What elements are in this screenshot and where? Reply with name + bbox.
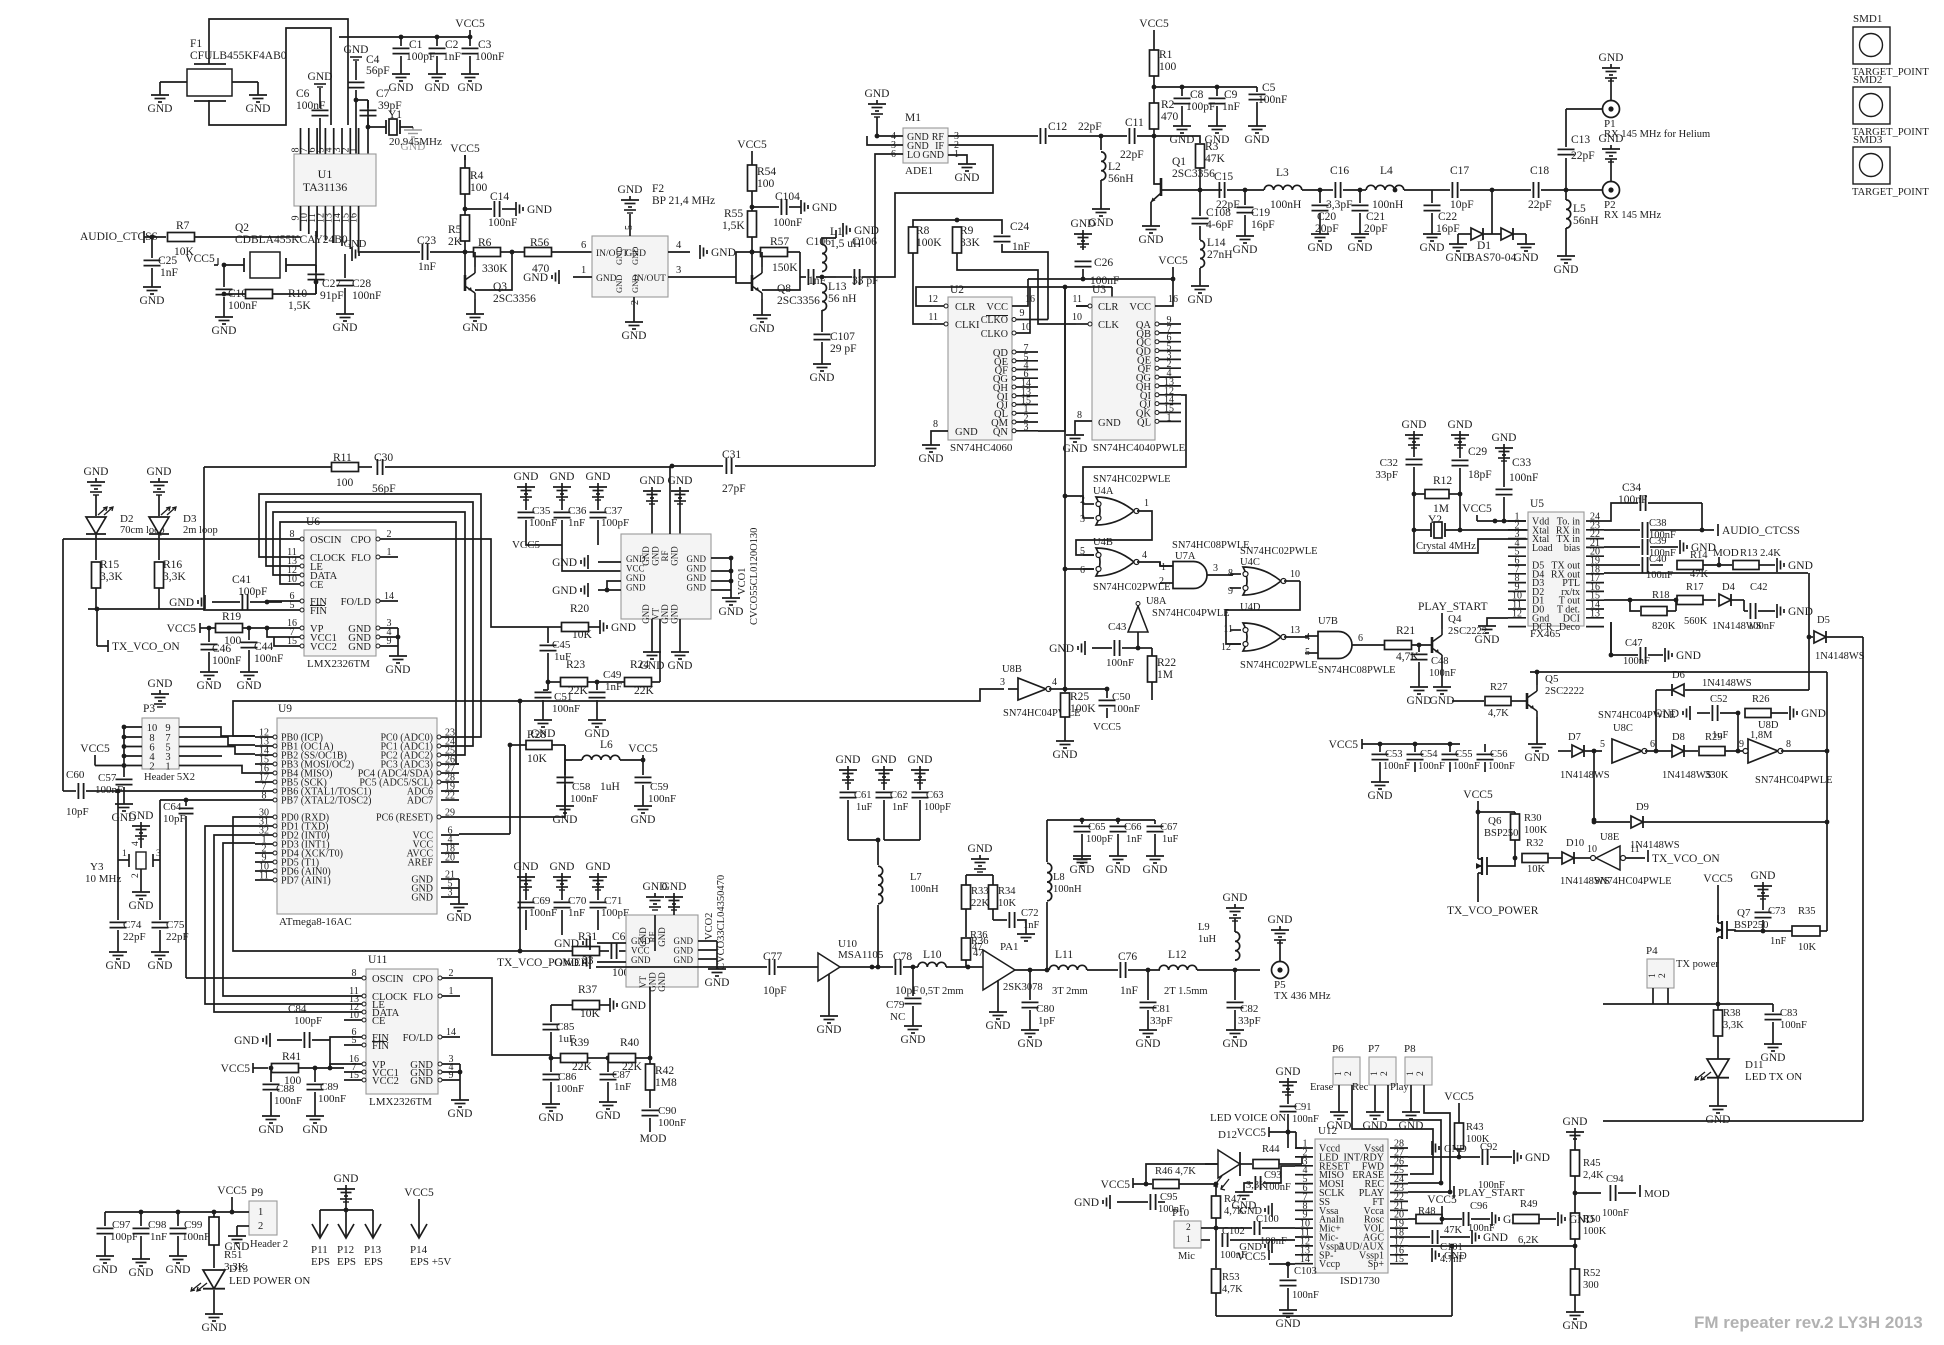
ground C53 <box>1379 778 1381 782</box>
capacitor C36 1nF <box>561 483 563 487</box>
ground C89 <box>314 1112 316 1116</box>
svg-text:C37: C37 <box>604 505 623 517</box>
svg-text:4,7K: 4,7K <box>1222 1284 1243 1295</box>
wires U11 bundle up to PD rows <box>223 843 344 996</box>
svg-text:2SC3356: 2SC3356 <box>1172 168 1215 180</box>
svg-text:4-6pF: 4-6pF <box>1206 219 1233 231</box>
svg-text:C5: C5 <box>1262 82 1276 94</box>
svg-text:3,3K: 3,3K <box>100 571 123 583</box>
svg-text:VCC5: VCC5 <box>167 623 197 635</box>
svg-text:2: 2 <box>258 1221 263 1232</box>
ground above C26 <box>1082 230 1084 234</box>
wire Y3 to XTAL pins <box>117 791 119 860</box>
svg-text:GND: GND <box>631 814 656 826</box>
svg-text:R14: R14 <box>1690 550 1708 561</box>
svg-text:2: 2 <box>1186 1223 1191 1233</box>
svg-text:GND: GND <box>670 546 680 566</box>
gnd tap C92 <box>1513 1150 1515 1164</box>
ground L9 top <box>1234 904 1236 908</box>
svg-text:U8A: U8A <box>1146 596 1167 607</box>
svg-text:ATmega8-16AC: ATmega8-16AC <box>279 916 352 928</box>
ground P2 <box>1610 159 1612 181</box>
svg-text:5: 5 <box>352 1035 357 1046</box>
ground U1 pin15 <box>351 247 353 261</box>
svg-text:2: 2 <box>149 762 154 773</box>
svg-text:Y3: Y3 <box>90 861 104 873</box>
svg-text:3: 3 <box>676 265 681 276</box>
svg-text:GND: GND <box>1049 643 1074 655</box>
svg-text:D6: D6 <box>1672 670 1685 681</box>
svg-text:1: 1 <box>1161 562 1166 573</box>
gnd tap C47 <box>1664 648 1666 662</box>
svg-text:100nF: 100nF <box>773 217 802 229</box>
gnd tap Vssp1 <box>1431 1248 1433 1262</box>
svg-text:1: 1 <box>581 265 586 276</box>
capacitor C1 100pF <box>400 37 402 46</box>
svg-text:GND: GND <box>657 927 667 947</box>
svg-text:VCC5: VCC5 <box>217 1185 247 1197</box>
svg-text:GND: GND <box>527 204 552 216</box>
svg-text:ADE1: ADE1 <box>905 165 933 177</box>
svg-text:100nF: 100nF <box>1509 472 1538 484</box>
svg-text:R45: R45 <box>1583 1158 1601 1169</box>
svg-text:Deco: Deco <box>1559 622 1580 633</box>
svg-text:Crystal 4MHz: Crystal 4MHz <box>1416 541 1476 552</box>
svg-text:GND: GND <box>621 1000 646 1012</box>
svg-text:GND: GND <box>1554 264 1579 276</box>
svg-text:GND: GND <box>662 881 687 893</box>
svg-text:1nF: 1nF <box>568 907 585 919</box>
svg-text:100nF: 100nF <box>1429 668 1456 679</box>
svg-text:PA1: PA1 <box>1000 941 1019 953</box>
svg-text:GND: GND <box>630 247 640 265</box>
svg-text:GND: GND <box>148 103 173 115</box>
ground L5 <box>1565 252 1567 256</box>
ground C29 <box>1459 431 1461 435</box>
svg-text:R22: R22 <box>1157 657 1176 669</box>
svg-text:100pF: 100pF <box>294 1015 322 1027</box>
svg-text:22K: 22K <box>971 898 990 909</box>
svg-text:U3: U3 <box>1092 284 1106 296</box>
svg-text:GND: GND <box>166 1264 191 1276</box>
ground C75 <box>159 948 161 952</box>
svg-text:8: 8 <box>352 968 357 979</box>
svg-text:L2: L2 <box>1108 161 1121 173</box>
svg-text:LMX2326TM: LMX2326TM <box>307 658 370 670</box>
svg-text:GND: GND <box>586 861 611 873</box>
svg-text:VCC5: VCC5 <box>1158 255 1188 267</box>
svg-text:AREF: AREF <box>407 858 433 869</box>
svg-text:P7: P7 <box>1368 1043 1380 1055</box>
svg-text:SN74HC02PWLE: SN74HC02PWLE <box>1093 474 1171 485</box>
ground C51 <box>542 716 544 720</box>
svg-text:GND: GND <box>1139 234 1164 246</box>
svg-text:R47: R47 <box>1224 1194 1242 1205</box>
svg-text:U4D: U4D <box>1240 602 1261 613</box>
svg-text:C39: C39 <box>1649 536 1667 547</box>
ground C88 <box>270 1112 272 1116</box>
ground Y3 bottom <box>140 888 142 892</box>
svg-text:14: 14 <box>384 591 394 602</box>
gnd tap Vssp2 <box>1271 1239 1273 1253</box>
svg-text:10pF: 10pF <box>66 806 89 818</box>
gnd tap C101 <box>1471 1230 1473 1244</box>
svg-text:VCC5: VCC5 <box>1093 721 1122 733</box>
svg-text:R41: R41 <box>282 1051 301 1063</box>
svg-text:2: 2 <box>630 300 641 305</box>
svg-text:R34: R34 <box>998 886 1016 897</box>
capacitor C63 100pF <box>919 766 921 770</box>
svg-text:Rec: Rec <box>1352 1082 1369 1093</box>
gnd trio above C69 <box>525 873 527 877</box>
svg-text:100nF: 100nF <box>1383 761 1410 772</box>
ground U2 pin8 <box>931 431 948 441</box>
svg-text:10: 10 <box>1587 844 1597 855</box>
svg-text:100nF: 100nF <box>552 703 580 715</box>
ground C79 <box>912 1022 914 1026</box>
svg-text:GND: GND <box>622 330 647 342</box>
svg-text:GND: GND <box>922 150 944 161</box>
svg-text:14: 14 <box>446 1027 456 1038</box>
wire XTAL1 line <box>118 790 255 792</box>
svg-text:R19: R19 <box>222 611 241 623</box>
svg-text:GND: GND <box>1788 560 1813 572</box>
svg-text:R39: R39 <box>570 1037 589 1049</box>
svg-text:100nF: 100nF <box>1748 621 1775 632</box>
svg-text:R13 2.4K: R13 2.4K <box>1740 548 1781 559</box>
svg-text:33pF: 33pF <box>1150 1015 1173 1027</box>
svg-text:VCC5: VCC5 <box>1703 873 1733 885</box>
svg-text:L5: L5 <box>1573 203 1586 215</box>
svg-text:GND: GND <box>1444 1251 1467 1262</box>
svg-text:GND: GND <box>448 1108 473 1120</box>
svg-text:CLKI: CLKI <box>955 320 980 331</box>
svg-text:47K: 47K <box>1690 569 1709 580</box>
svg-text:R17: R17 <box>1686 582 1704 593</box>
svg-text:3: 3 <box>1024 422 1029 433</box>
svg-text:CLR: CLR <box>1098 302 1118 313</box>
svg-text:GND: GND <box>955 427 978 438</box>
svg-text:C28: C28 <box>352 278 371 290</box>
svg-text:Q4: Q4 <box>1448 613 1462 625</box>
svg-text:VCC5: VCC5 <box>185 253 215 265</box>
svg-text:6: 6 <box>581 240 586 251</box>
svg-text:33pF: 33pF <box>1238 1015 1261 1027</box>
svg-text:P14: P14 <box>410 1244 428 1256</box>
wire U4B input6 junction <box>1065 568 1094 570</box>
svg-text:R36: R36 <box>971 936 989 947</box>
svg-text:6: 6 <box>1358 633 1363 644</box>
svg-text:VCO1: VCO1 <box>737 568 748 595</box>
capacitor C3 100nF <box>469 37 471 46</box>
svg-text:GND: GND <box>552 585 577 597</box>
svg-text:U8E: U8E <box>1600 832 1619 843</box>
ground F1 right <box>257 91 259 95</box>
svg-text:GND: GND <box>147 466 172 478</box>
svg-text:GND: GND <box>410 1076 433 1087</box>
svg-text:D4: D4 <box>1722 582 1736 593</box>
svg-text:20: 20 <box>445 853 455 864</box>
svg-text:L6: L6 <box>600 739 613 751</box>
ground U5 pin12 <box>1487 618 1508 622</box>
svg-text:R29: R29 <box>1705 732 1723 743</box>
svg-text:P12: P12 <box>337 1244 354 1256</box>
svg-text:LO: LO <box>907 150 920 161</box>
svg-text:Q8: Q8 <box>777 283 791 295</box>
svg-text:GND: GND <box>1761 1052 1786 1064</box>
svg-text:LED POWER ON: LED POWER ON <box>229 1275 310 1287</box>
svg-text:D9: D9 <box>1636 802 1649 813</box>
svg-text:CE: CE <box>372 1016 385 1027</box>
connector P1 RX 145 MHz for Helium <box>1603 101 1620 118</box>
svg-text:D8: D8 <box>1672 732 1685 743</box>
svg-text:1: 1 <box>258 1207 263 1218</box>
svg-text:R55: R55 <box>724 208 743 220</box>
svg-text:L13: L13 <box>828 281 847 293</box>
ground C104 <box>800 200 802 214</box>
svg-text:GND: GND <box>668 475 693 487</box>
svg-text:C65: C65 <box>1088 822 1106 833</box>
svg-text:3,3K: 3,3K <box>163 571 186 583</box>
ground C103 <box>1287 1306 1289 1310</box>
svg-text:18pF: 18pF <box>1468 469 1492 481</box>
svg-text:100nF: 100nF <box>648 793 676 805</box>
svg-text:4,7K: 4,7K <box>1488 708 1509 719</box>
svg-text:VCC5: VCC5 <box>1462 503 1492 515</box>
right border wires <box>1603 1120 1863 1122</box>
svg-text:U1: U1 <box>318 167 333 181</box>
svg-text:5: 5 <box>1600 739 1605 750</box>
VCO2 VT down <box>649 987 651 1058</box>
svg-text:100nF: 100nF <box>1292 1290 1319 1301</box>
svg-text:300: 300 <box>1583 1280 1599 1291</box>
svg-text:C83: C83 <box>1780 1008 1798 1019</box>
svg-text:CLR: CLR <box>955 302 975 313</box>
svg-text:1M8: 1M8 <box>655 1077 677 1089</box>
GND cap C41 wire <box>204 595 206 609</box>
svg-text:VCC5: VCC5 <box>80 743 110 755</box>
svg-text:GND: GND <box>148 678 173 690</box>
svg-text:GND: GND <box>810 372 835 384</box>
ground U3 pin8 <box>1075 421 1092 431</box>
svg-text:R20: R20 <box>570 603 589 615</box>
svg-text:GND: GND <box>865 88 890 100</box>
svg-text:C17: C17 <box>1450 165 1469 177</box>
svg-text:2T 1.5mm: 2T 1.5mm <box>1164 986 1208 997</box>
svg-text:100K: 100K <box>1583 1226 1607 1237</box>
svg-text:GND: GND <box>674 936 694 946</box>
ground P11-P13 <box>345 1185 347 1189</box>
svg-text:1uH: 1uH <box>600 781 620 793</box>
wire U5 pin3 to crystal <box>1414 530 1529 553</box>
svg-text:2: 2 <box>131 873 141 878</box>
svg-text:P10: P10 <box>1172 1207 1190 1219</box>
svg-text:GND: GND <box>1525 1152 1550 1164</box>
svg-text:GND: GND <box>1276 1066 1301 1078</box>
svg-text:22pF: 22pF <box>1571 150 1595 162</box>
ground P9 pin2 <box>236 1226 238 1232</box>
svg-text:100nF: 100nF <box>352 290 381 302</box>
svg-text:U7B: U7B <box>1318 616 1338 627</box>
svg-text:R21: R21 <box>1396 625 1415 637</box>
svg-text:GND: GND <box>1402 419 1427 431</box>
wire C24 bottom <box>1002 244 1048 320</box>
svg-text:56 nH: 56 nH <box>828 293 856 305</box>
svg-text:GND: GND <box>202 1322 227 1334</box>
svg-text:GND: GND <box>1106 864 1131 876</box>
svg-text:100nF: 100nF <box>658 1117 686 1129</box>
wire TX_VCO_POWER drop <box>519 701 521 951</box>
ground C73 <box>1762 882 1764 886</box>
wire VCC into VCO1 <box>526 538 562 545</box>
svg-text:1: 1 <box>1648 973 1658 978</box>
svg-text:L9: L9 <box>1198 922 1210 933</box>
svg-text:D2: D2 <box>120 513 133 525</box>
svg-text:GND: GND <box>1188 294 1213 306</box>
svg-text:BAS70-04: BAS70-04 <box>1467 252 1516 264</box>
svg-text:GND: GND <box>955 172 980 184</box>
svg-text:Erase: Erase <box>1310 1082 1334 1093</box>
wire U6 CPO to R20 <box>398 539 548 627</box>
svg-text:1,5K: 1,5K <box>722 220 745 232</box>
svg-text:GND: GND <box>514 861 539 873</box>
svg-text:R43: R43 <box>1466 1122 1484 1133</box>
svg-text:1: 1 <box>1167 412 1172 423</box>
wires P3 right to U9 PB stubs <box>197 727 255 736</box>
svg-text:TX_VCO_ON: TX_VCO_ON <box>112 641 180 653</box>
svg-text:1,8M: 1,8M <box>1750 730 1773 741</box>
svg-text:C42: C42 <box>1750 582 1768 593</box>
svg-text:GND: GND <box>1599 52 1624 64</box>
wire deco down <box>1530 671 1827 673</box>
svg-text:GND: GND <box>550 471 575 483</box>
svg-text:2: 2 <box>1658 973 1668 978</box>
ground C48 <box>1418 683 1420 687</box>
svg-text:GND: GND <box>1514 252 1539 264</box>
svg-text:C48: C48 <box>1431 656 1449 667</box>
svg-text:100nF: 100nF <box>1260 1236 1287 1247</box>
svg-text:C60: C60 <box>66 769 85 781</box>
wire PD0 to TX_VCO_POWER line <box>233 817 470 951</box>
svg-text:15: 15 <box>349 1070 359 1081</box>
svg-text:4: 4 <box>131 841 141 846</box>
svg-text:GND: GND <box>901 1034 926 1046</box>
svg-text:1nF: 1nF <box>1120 985 1138 997</box>
svg-text:100nH: 100nH <box>1372 199 1403 211</box>
svg-text:GND: GND <box>246 103 271 115</box>
svg-text:Q7: Q7 <box>1737 907 1751 919</box>
svg-text:VCC5: VCC5 <box>628 743 658 755</box>
svg-text:29: 29 <box>445 808 455 819</box>
svg-text:R4: R4 <box>470 170 484 182</box>
gnd taps VCO2 left <box>589 936 591 950</box>
svg-text:GND: GND <box>1525 752 1550 764</box>
svg-text:R44: R44 <box>1262 1144 1280 1155</box>
svg-text:8: 8 <box>262 791 267 802</box>
ground C14 <box>515 202 517 216</box>
svg-text:L3: L3 <box>1276 167 1289 179</box>
svg-text:6,2K: 6,2K <box>1518 1235 1539 1246</box>
svg-text:27nH: 27nH <box>1207 249 1233 261</box>
svg-text:10: 10 <box>1290 569 1300 580</box>
svg-text:C6: C6 <box>296 88 310 100</box>
svg-text:C108: C108 <box>1206 207 1231 219</box>
svg-text:2,4K: 2,4K <box>1583 1170 1604 1181</box>
ground C3 <box>469 70 471 74</box>
gnd above VCO2 pins <box>654 893 656 897</box>
svg-text:1uF: 1uF <box>1162 834 1179 845</box>
svg-text:Q3: Q3 <box>493 281 507 293</box>
svg-text:GND: GND <box>447 912 472 924</box>
ground C91 <box>1287 1078 1289 1082</box>
wire PB0 to U8B input <box>233 689 1004 736</box>
svg-text:GND: GND <box>657 972 667 992</box>
svg-text:FLO: FLO <box>351 553 371 564</box>
svg-text:GND: GND <box>1063 443 1088 455</box>
svg-text:Load: Load <box>1532 543 1553 554</box>
wire F1 bottom loop <box>209 28 331 125</box>
svg-text:1nF: 1nF <box>605 681 622 693</box>
wire VCC2 pins <box>267 628 282 637</box>
svg-text:2m loop: 2m loop <box>183 525 218 536</box>
svg-text:Q1: Q1 <box>1172 156 1186 168</box>
svg-text:100pF: 100pF <box>601 907 629 919</box>
VCO2 box CVCO33CL <box>626 915 698 987</box>
svg-text:C72: C72 <box>1021 908 1039 919</box>
svg-text:CDBLA455KCAY24B0: CDBLA455KCAY24B0 <box>235 234 348 246</box>
svg-text:C9: C9 <box>1224 89 1238 101</box>
svg-text:8: 8 <box>933 419 938 430</box>
wire VCO2 RF to C77 <box>596 966 767 968</box>
svg-text:33K: 33K <box>960 237 981 249</box>
ground L14 <box>1199 282 1201 286</box>
svg-text:R37: R37 <box>578 984 597 996</box>
svg-text:GND: GND <box>333 322 358 334</box>
svg-text:GND: GND <box>1399 1120 1424 1132</box>
svg-text:C52: C52 <box>1710 694 1728 705</box>
svg-text:100: 100 <box>1159 61 1177 73</box>
svg-text:GND: GND <box>705 977 730 989</box>
svg-text:C66: C66 <box>1124 822 1142 833</box>
svg-text:C71: C71 <box>604 895 622 907</box>
mixer RF wire to C12 <box>948 135 1038 137</box>
svg-text:15: 15 <box>287 636 297 647</box>
svg-text:R42: R42 <box>655 1065 674 1077</box>
svg-text:GND: GND <box>1308 242 1333 254</box>
svg-text:FO/LD: FO/LD <box>403 1033 434 1044</box>
svg-text:CLKO: CLKO <box>981 329 1008 340</box>
svg-text:100nH: 100nH <box>1270 199 1301 211</box>
svg-text:2: 2 <box>1416 1071 1426 1076</box>
rail above C65-C67 <box>1047 819 1155 821</box>
svg-text:C99: C99 <box>184 1219 203 1231</box>
svg-text:10pF: 10pF <box>163 813 186 825</box>
svg-text:VCC: VCC <box>986 302 1008 313</box>
wires U6 left bus <box>63 538 282 540</box>
svg-text:GND: GND <box>660 604 670 624</box>
svg-text:L10: L10 <box>923 949 942 961</box>
svg-text:27pF: 27pF <box>722 483 746 495</box>
svg-text:Q6: Q6 <box>1488 815 1502 827</box>
svg-text:22pF: 22pF <box>1528 199 1552 211</box>
capacitor C61 1uF <box>847 766 849 770</box>
svg-text:GND: GND <box>1143 864 1168 876</box>
svg-text:1: 1 <box>1370 1071 1380 1076</box>
svg-text:GND: GND <box>1053 749 1078 761</box>
svg-text:SN74HC08PWLE: SN74HC08PWLE <box>1172 540 1250 551</box>
svg-text:2: 2 <box>387 529 392 540</box>
svg-text:GND: GND <box>674 955 694 965</box>
